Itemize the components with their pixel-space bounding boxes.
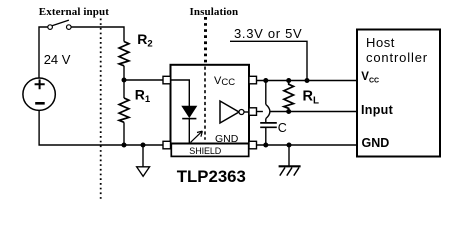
svg-text:3.3V or 5V: 3.3V or 5V [234,26,302,41]
insulation dotted line [204,17,207,64]
svg-text:SHIELD: SHIELD [189,146,222,156]
svg-text:C: C [278,121,287,135]
wire to left ground [142,145,144,167]
wire R2 to node A [123,66,125,80]
wire to earth ground [288,145,290,166]
junction ground stub [141,143,146,148]
voltage source minus sign [35,102,45,105]
switch S contact circle right [67,25,72,30]
arrow pointing to shield [191,132,202,143]
capacitor C plates [260,122,277,124]
junction R1 bottom [122,143,127,148]
op-to: IC U1 TLP2363 body [171,65,250,144]
switch S contact circle left [48,25,53,30]
pin GND (right bottom) [249,141,257,149]
switch S lever [52,20,69,26]
wire VCC rail [257,80,358,82]
resistor R1 [119,98,129,122]
wire capacitor to ground rail [265,127,267,145]
wire R1 to ground rail [123,122,125,145]
pin anode (left top) [163,76,171,84]
svg-text:controller: controller [366,50,428,65]
junction RL bottom [286,109,291,114]
wire C branch upper [265,81,267,105]
junction RL top [286,78,291,83]
inverter bubble [239,110,244,115]
internal shield dashed line [204,67,206,140]
voltage source V1 circle [23,78,55,110]
resistor R2 [119,42,129,66]
svg-text:Insulation: Insulation [190,6,239,18]
earth ground (hatched) [279,165,301,167]
svg-text:Input: Input [361,103,394,117]
pin cathode (left bottom) [163,141,171,149]
svg-text:TLP2363: TLP2363 [177,167,246,186]
svg-text:GND: GND [215,133,239,145]
wire bubble to VO pin [244,111,249,113]
wire hop over input line [266,104,270,118]
LED D1 (filled triangle + cathode bar) [182,106,196,117]
wire GND rail [257,144,358,146]
voltage source plus sign [35,79,45,89]
wire 3.3V feed [230,41,307,80]
boundary dotted line (external input side) [100,19,102,201]
junction earth stub [287,143,292,148]
ground (open triangle) [137,167,150,177]
wire switch to R2 [71,27,124,42]
junction node A [122,78,127,83]
junction C bottom [263,143,268,148]
wire node A to anode pin [124,79,163,81]
junction C top [263,78,268,83]
wire top rail left segment [39,27,48,78]
wire node A to R1 [123,80,125,98]
wire VO to host Input (with hop gap) [257,111,263,113]
pin VCC (right top) [249,76,257,84]
wire hop to capacitor [265,119,267,122]
junction 3.3V feed [305,78,310,83]
svg-text:24 V: 24 V [44,52,71,67]
svg-text:External input: External input [39,6,109,18]
inverter buffer triangle [220,101,239,123]
resistor RL [284,81,294,112]
svg-text:VCC: VCC [214,75,235,88]
wire anode pin to LED [171,80,190,106]
pin VO (right middle) [249,108,257,116]
svg-text:Host: Host [366,35,395,50]
wire LED cathode to cathode pin [188,119,190,144]
shield strip box [171,144,248,157]
svg-text:GND: GND [362,136,390,150]
wire source bottom to ground rail [39,111,163,146]
host controller box [357,30,440,157]
